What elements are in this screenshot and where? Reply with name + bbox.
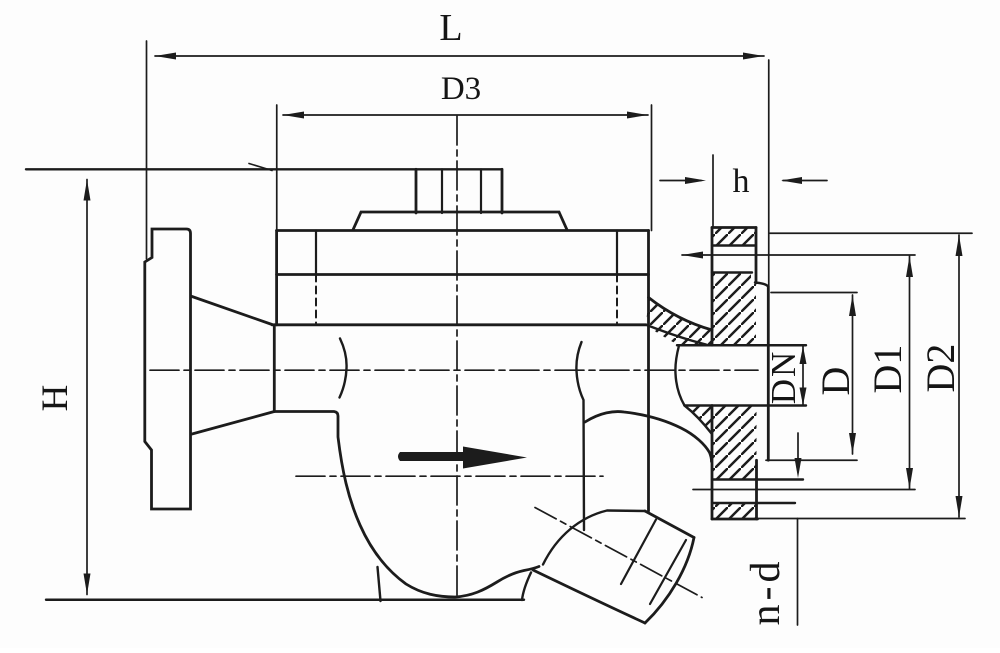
bonnet bolt right — [616, 231, 618, 275]
svg-text:h: h — [733, 163, 750, 200]
body left edge — [273, 325, 276, 412]
ground base line — [46, 599, 524, 601]
h arrow right — [783, 180, 827, 182]
raised face top edge — [755, 283, 768, 287]
h arrow left — [660, 180, 701, 182]
body underside and bowl arc — [274, 412, 539, 598]
h arrowhead right — [781, 177, 802, 184]
bolt hole pointer line — [797, 433, 799, 471]
D dimension line — [852, 295, 854, 454]
D1 arrowhead bottom — [906, 468, 913, 489]
drain axis centerline — [535, 508, 702, 598]
flange left face upper — [711, 228, 714, 346]
inlet cone top line — [192, 297, 272, 325]
D2 dimension line — [958, 235, 960, 517]
flange top edge — [712, 226, 756, 229]
inlet cone bottom line — [192, 412, 274, 435]
D2 arrowhead bottom — [956, 496, 963, 517]
outlet neck underside curve — [585, 412, 712, 462]
svg-text:D1: D1 — [865, 345, 910, 394]
svg-text:D: D — [813, 367, 858, 396]
svg-text:L: L — [439, 7, 462, 49]
svg-text:n-d: n-d — [743, 558, 789, 626]
bowl left foot — [378, 567, 381, 601]
horizontal centerline — [150, 369, 758, 371]
bonnet flange top edge — [277, 229, 649, 232]
lower chamber centerline — [296, 475, 603, 477]
L extension left — [146, 41, 148, 259]
DN arrowhead top — [800, 346, 807, 364]
D arrowhead bottom — [849, 433, 856, 454]
D extension bottom — [766, 459, 857, 461]
bowl right foot — [522, 573, 531, 601]
D2 extension bottom — [758, 518, 966, 520]
hatch region R1 top flange rim — [712, 228, 756, 246]
drain boss lower side — [533, 570, 645, 623]
drain boss end cap — [645, 538, 694, 624]
hatch region R4 bottom flange rim — [712, 503, 757, 519]
L / h extension right — [768, 60, 770, 286]
left flange outline — [145, 229, 191, 509]
svg-text:H: H — [35, 385, 76, 412]
bonnet flange mid joint — [277, 273, 649, 276]
bolt hole bottom line — [712, 271, 752, 273]
lower section cut curve — [685, 406, 712, 434]
bonnet cap trapezoid — [353, 212, 567, 230]
flange right face upper — [755, 228, 758, 284]
outlet bore inner arc — [675, 346, 684, 406]
D1 extension bottom / bolt hole axis — [693, 489, 915, 491]
bonnet flange bottom edge — [272, 323, 646, 326]
svg-text:D2: D2 — [918, 344, 963, 393]
DN dimension line — [802, 346, 804, 406]
bolt hole 2 bottom line — [712, 502, 795, 504]
hatch region R3 lower neck and flange — [685, 406, 757, 480]
bolt hole 2 top line — [712, 478, 803, 480]
inlet bore arc — [340, 339, 347, 398]
bonnet flange left edge — [275, 231, 278, 325]
hatch region R2 upper neck and flange — [646, 273, 756, 346]
L arrowhead right — [743, 53, 764, 60]
extension line tilt artifact — [249, 164, 272, 171]
raised face right edge — [767, 287, 770, 461]
D3 arrowhead right — [627, 112, 648, 119]
drain boss arch — [543, 511, 645, 565]
D1 extension top / bolt hole axis — [682, 254, 915, 256]
D1 bolt hole arrowhead — [682, 252, 703, 259]
outlet bore top line — [677, 344, 806, 346]
svg-text:D3: D3 — [441, 71, 481, 107]
D3 dimension line — [283, 114, 648, 116]
flange left face lower — [711, 406, 714, 520]
h extension left — [712, 155, 714, 226]
bonnet bottom right fillet — [646, 325, 706, 345]
H arrowhead top — [84, 180, 91, 201]
H top extension line / bolt top — [26, 168, 502, 170]
outlet bore bottom line — [685, 404, 807, 406]
body right edge — [647, 231, 650, 512]
vertical centerline — [456, 116, 458, 595]
D extension top — [771, 292, 857, 294]
D3 arrowhead left — [283, 112, 304, 119]
drain boss facet line 1 — [621, 520, 656, 585]
drain boss upper side — [645, 511, 694, 538]
D arrowhead top — [849, 295, 856, 316]
flange right face lower — [755, 460, 758, 519]
L dimension line — [155, 55, 764, 57]
drain boss facet line 2 — [650, 540, 686, 604]
DN arrowhead bottom — [800, 388, 807, 406]
H arrowhead bottom — [84, 574, 91, 595]
L arrowhead left — [155, 53, 176, 60]
H dimension line — [86, 180, 88, 595]
flange bottom edge — [712, 518, 758, 521]
bonnet bolt left — [315, 231, 317, 275]
D1 dimension line — [909, 256, 911, 489]
D3 extension left — [276, 105, 278, 231]
bolt facet lines — [442, 169, 481, 213]
D2 arrowhead top — [956, 235, 963, 256]
n-d leader line — [797, 519, 799, 626]
stem bolt head — [416, 169, 502, 213]
bolt hole pointer arrowhead — [795, 458, 802, 478]
D1 arrowhead top — [906, 256, 913, 277]
svg-text:DN: DN — [764, 350, 803, 405]
outlet neck top curve — [649, 298, 713, 331]
chamber right arc and edge — [576, 342, 584, 530]
D2 extension top — [770, 232, 972, 234]
D3 extension right — [651, 105, 653, 231]
h arrowhead left — [685, 177, 706, 184]
bolt hole top line — [712, 244, 755, 246]
flow arrow — [398, 447, 527, 469]
